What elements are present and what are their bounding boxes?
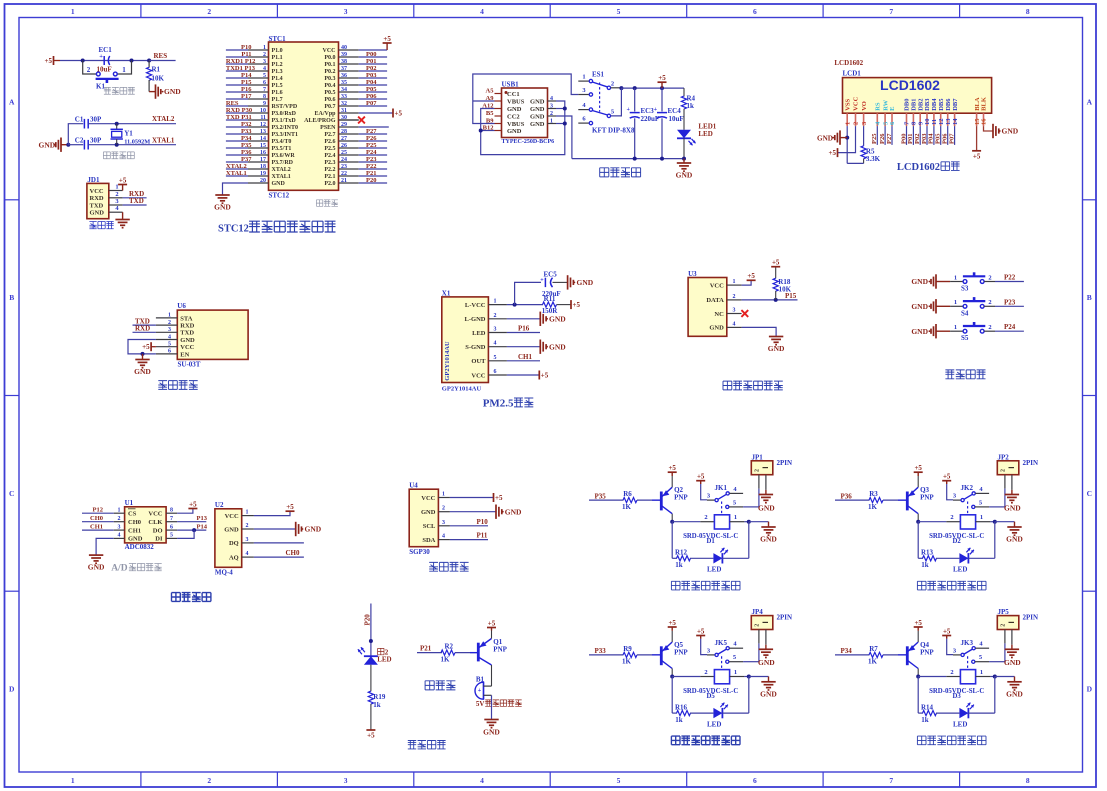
svg-text:PNP: PNP: [920, 648, 934, 656]
svg-text:+5: +5: [697, 473, 705, 481]
svg-text:+5: +5: [367, 732, 375, 740]
svg-text:GND: GND: [911, 277, 928, 286]
no-connect X (U3 pin3): [741, 310, 748, 317]
svg-text:LED: LED: [953, 720, 967, 728]
title 语音模块: [158, 381, 167, 390]
wire P36 to R3: [835, 499, 869, 501]
svg-text:GND: GND: [911, 327, 928, 336]
usb USB1 left pins: [495, 93, 502, 95]
svg-text:P02: P02: [366, 65, 376, 72]
svg-text:11: 11: [260, 115, 266, 121]
switch JK3 dashed link: [967, 656, 969, 669]
svg-text:1: 1: [844, 122, 851, 125]
svg-text:GND: GND: [530, 121, 545, 128]
svg-text:P2.5: P2.5: [324, 146, 335, 152]
svg-text:22: 22: [341, 171, 347, 177]
svg-text:Y1: Y1: [124, 130, 133, 138]
svg-text:GND: GND: [530, 98, 545, 105]
svg-text:RXD1 P12: RXD1 P12: [226, 58, 255, 65]
svg-text:R12: R12: [675, 549, 688, 557]
svg-text:3: 3: [118, 524, 121, 530]
svg-text:P10: P10: [241, 44, 251, 51]
wire U3 pin2 DATA: [742, 299, 798, 301]
svg-text:+5: +5: [286, 503, 294, 511]
title 甲烷检测: [172, 593, 181, 602]
wire U1 pin6 P14: [177, 529, 206, 531]
wire U4 pin1 +5: [450, 497, 494, 499]
wire +5 to JK2 pin3: [947, 484, 953, 500]
svg-text:ADC0832: ADC0832: [125, 543, 155, 551]
svg-text:C1: C1: [75, 116, 84, 124]
svg-text:GND: GND: [1002, 127, 1019, 136]
wire +5 rail: [621, 87, 684, 89]
svg-text:10K: 10K: [779, 286, 792, 294]
node relay D1 out junction: [747, 520, 751, 524]
title 电源电路: [600, 168, 609, 177]
svg-text:P32: P32: [241, 121, 251, 128]
wire U1 pin5 loop: [177, 530, 194, 538]
svg-text:A: A: [1087, 97, 1093, 106]
switch JK2 pin5: [972, 505, 975, 508]
svg-text:P26: P26: [366, 135, 377, 142]
svg-text:P13: P13: [197, 515, 208, 522]
ground (JP2): [1005, 494, 1019, 496]
svg-text:1: 1: [980, 514, 983, 521]
node Q4 collector junction: [916, 675, 920, 679]
svg-text:R19: R19: [373, 693, 386, 701]
svg-text:+5: +5: [488, 619, 496, 627]
node xtal1 junction: [115, 143, 119, 147]
svg-text:P23: P23: [366, 156, 377, 163]
svg-text:MQ-4: MQ-4: [215, 569, 233, 577]
svg-text:RS: RS: [875, 102, 882, 111]
svg-text:VCC: VCC: [90, 188, 104, 195]
svg-text:TXD: TXD: [129, 197, 144, 205]
ground (JP5): [1005, 648, 1019, 650]
svg-text:S5: S5: [961, 334, 969, 342]
wire collector to relay D3: [918, 676, 946, 678]
svg-text:GND: GND: [505, 507, 522, 516]
svg-text:2PIN: 2PIN: [777, 459, 793, 467]
svg-text:P35: P35: [241, 142, 252, 149]
svg-text:XTAL2: XTAL2: [226, 163, 247, 170]
svg-text:4: 4: [442, 534, 445, 540]
power +5 (Q5): [671, 631, 673, 642]
svg-text:CH0: CH0: [128, 519, 141, 526]
node gnd rail EC4: [660, 157, 664, 161]
node es1 out junction: [619, 86, 623, 90]
wire to gnd (D3): [995, 676, 1015, 678]
svg-text:VCC: VCC: [853, 96, 860, 110]
svg-text:LED: LED: [707, 720, 721, 728]
svg-text:CH1: CH1: [128, 527, 141, 534]
svg-text:27: 27: [341, 136, 347, 142]
title 继电器控制输出: [917, 581, 926, 590]
svg-text:2: 2: [611, 80, 614, 87]
node relay D3 out junction: [993, 675, 997, 679]
svg-text:GND: GND: [549, 342, 566, 351]
power +5 (Q4): [917, 631, 919, 642]
svg-text:P2.3: P2.3: [324, 160, 335, 166]
svg-text:2: 2: [950, 669, 953, 676]
wire key S5 to P24: [984, 330, 995, 332]
power +5 (X1 pin6): [538, 371, 540, 380]
svg-text:TXD P31: TXD P31: [226, 114, 252, 121]
wire R5 to VSS gnd loop: [847, 162, 863, 164]
svg-text:10uF: 10uF: [669, 115, 684, 123]
svg-text:XTAL1: XTAL1: [226, 170, 247, 177]
ground (lcd right): [992, 124, 994, 138]
svg-text:2: 2: [704, 669, 707, 676]
svg-text:P37: P37: [241, 156, 252, 163]
node DO/DI junction: [192, 528, 196, 532]
svg-text:10K: 10K: [152, 75, 165, 83]
svg-text:AQ: AQ: [229, 554, 239, 561]
svg-text:P3.5/T1: P3.5/T1: [272, 146, 292, 152]
svg-text:P20: P20: [364, 614, 372, 626]
svg-text:P21: P21: [420, 645, 432, 653]
title 独立按键: [945, 370, 954, 379]
svg-text:P2.1: P2.1: [324, 174, 335, 180]
svg-text:30P: 30P: [90, 116, 102, 124]
connector JP4 pin wires: [758, 630, 760, 644]
pin 3 (JD1 TXD): [109, 204, 123, 206]
svg-text:16: 16: [981, 118, 988, 125]
key button S3: [950, 281, 963, 283]
wire gnd up to C1: [68, 124, 83, 145]
svg-text:LCD1602: LCD1602: [834, 59, 863, 67]
svg-text:P3.3/INT1: P3.3/INT1: [272, 132, 299, 138]
wire U4 pin4 P11: [450, 539, 488, 541]
led yellow2: [364, 655, 378, 657]
svg-text:GND: GND: [180, 337, 195, 344]
relay D3 pin1 wire: [976, 676, 991, 678]
svg-text:TYPEC-250D-BCP6: TYPEC-250D-BCP6: [502, 139, 555, 145]
power +5 (reset): [53, 56, 55, 65]
svg-text:4: 4: [118, 533, 121, 539]
svg-text:L-GND: L-GND: [465, 316, 486, 323]
svg-text:24: 24: [341, 157, 347, 163]
svg-text:GND: GND: [483, 727, 500, 736]
svg-text:4: 4: [246, 551, 249, 557]
switch JK1 pin4: [729, 492, 743, 494]
svg-text:P36: P36: [241, 149, 252, 156]
title 继电器控制输出: [917, 736, 926, 745]
wire TXD (U6 pin2): [133, 324, 156, 326]
svg-text:R2: R2: [445, 643, 454, 651]
svg-text:EN: EN: [180, 351, 189, 358]
svg-text:STC12: STC12: [269, 192, 290, 200]
svg-text:GND: GND: [817, 134, 833, 142]
svg-text:D1: D1: [707, 538, 716, 545]
node usb pin1 junction: [563, 122, 567, 126]
lcd LCD1602 body: [843, 78, 992, 114]
svg-text:CC1: CC1: [507, 91, 520, 98]
node rail EC3: [633, 86, 637, 90]
ground (STC1 pin20): [223, 183, 249, 195]
svg-text:+5: +5: [943, 628, 951, 636]
svg-text:PNP: PNP: [674, 648, 688, 656]
wire RES: [149, 60, 176, 62]
svg-text:1: 1: [954, 324, 957, 331]
svg-text:2: 2: [115, 191, 118, 198]
svg-text:+5: +5: [668, 619, 676, 627]
svg-text:CC2: CC2: [507, 113, 520, 120]
svg-text:5: 5: [494, 355, 497, 361]
lcd data wires with net labels: [876, 126, 878, 145]
svg-text:33: 33: [341, 94, 347, 100]
svg-text:37: 37: [341, 66, 347, 72]
pin 4 (JD1 GND): [109, 211, 123, 213]
svg-text:7: 7: [889, 7, 893, 16]
svg-text:P15: P15: [241, 79, 252, 86]
lcd VO wire and resistor R5: [863, 126, 865, 146]
svg-text:R16: R16: [675, 703, 688, 711]
svg-text:CH1: CH1: [90, 524, 103, 531]
svg-text:GND: GND: [224, 526, 239, 533]
svg-text:2: 2: [87, 66, 91, 74]
wire led to junction (D5): [722, 712, 748, 714]
svg-text:VSS: VSS: [844, 98, 851, 110]
connector JP2 pin wires: [1004, 475, 1006, 489]
svg-text:1: 1: [954, 274, 957, 281]
svg-text:CH0: CH0: [90, 515, 103, 522]
svg-text:1: 1: [246, 510, 249, 516]
svg-text:2: 2: [950, 514, 953, 521]
led (relay D1): [713, 553, 722, 563]
svg-text:16: 16: [260, 150, 266, 156]
svg-text:GND: GND: [164, 87, 181, 96]
svg-text:XTAL2: XTAL2: [272, 167, 291, 173]
svg-text:2: 2: [118, 516, 121, 522]
svg-text:2: 2: [988, 324, 991, 331]
svg-text:P33: P33: [241, 128, 252, 135]
node DATA junction: [774, 298, 778, 302]
capacitor EC4: [661, 88, 663, 111]
svg-text:P0.4: P0.4: [324, 83, 335, 89]
svg-text:VBUS: VBUS: [507, 98, 525, 105]
svg-text:GND: GND: [709, 325, 724, 332]
lcd BLK wire to gnd: [984, 126, 994, 131]
node gnd rail EC3: [633, 157, 637, 161]
svg-text:S4: S4: [961, 309, 969, 317]
svg-text:P16: P16: [241, 86, 252, 93]
svg-text:P1.6: P1.6: [272, 90, 283, 96]
svg-text:36: 36: [341, 73, 347, 79]
svg-text:+: +: [626, 107, 630, 113]
adc U1 left pins: [114, 512, 125, 514]
svg-text:P0.0: P0.0: [324, 55, 335, 61]
svg-text:220uF: 220uF: [641, 115, 660, 123]
wire XTAL2: [88, 123, 176, 125]
node P20 junction: [369, 639, 373, 643]
svg-text:RXD: RXD: [135, 325, 150, 333]
svg-text:3: 3: [263, 59, 266, 65]
svg-text:2PIN: 2PIN: [1023, 459, 1039, 467]
svg-text:P03: P03: [366, 72, 377, 79]
wire collector to relay D2: [918, 521, 946, 523]
svg-text:LED: LED: [472, 330, 486, 337]
svg-text:P1.5: P1.5: [272, 83, 283, 89]
es1 pin1: [578, 80, 589, 82]
wire K1 branch right: [117, 61, 131, 75]
svg-text:P34: P34: [841, 647, 853, 655]
svg-text:B: B: [1087, 293, 1092, 302]
svg-text:JK2: JK2: [961, 484, 974, 492]
es1 dashed link: [599, 83, 601, 112]
svg-text:3: 3: [344, 7, 348, 16]
svg-text:P2.2: P2.2: [324, 167, 335, 173]
svg-text:D: D: [9, 685, 15, 694]
wire X1 pin2 to gnd: [507, 318, 540, 320]
svg-text:JK5: JK5: [715, 639, 728, 647]
wire usb pin3: [556, 108, 565, 110]
capacitor C2: [68, 144, 83, 146]
svg-text:GND: GND: [530, 113, 545, 120]
svg-text:P23: P23: [1004, 298, 1016, 306]
svg-text:4: 4: [480, 776, 484, 785]
svg-text:GND: GND: [1006, 535, 1023, 544]
connector JP1 pin wires: [758, 475, 760, 489]
svg-text:GND: GND: [768, 344, 785, 353]
power +5 (R11): [570, 300, 572, 309]
svg-text:R13: R13: [921, 549, 934, 557]
power +5 (U3): [747, 279, 756, 281]
title 继电器控制输出: [671, 581, 680, 590]
resistor R18 pullup: [775, 267, 777, 279]
svg-text:2PIN: 2PIN: [777, 614, 793, 622]
svg-text:XTAL1: XTAL1: [152, 137, 175, 145]
wire P20 vertical: [370, 604, 372, 657]
svg-text:P3.7/RD: P3.7/RD: [272, 160, 294, 166]
svg-text:P17: P17: [241, 93, 252, 100]
wire X1 pin5 CH1: [507, 360, 540, 362]
svg-text:TXD: TXD: [90, 202, 104, 209]
node gnd rail LED: [682, 157, 686, 161]
svg-text:GND: GND: [128, 536, 143, 543]
svg-text:2: 2: [988, 274, 991, 281]
pin 2 (JD1 RXD): [109, 197, 123, 199]
svg-text:1: 1: [980, 669, 983, 676]
node junction left: [81, 59, 85, 63]
svg-text:7: 7: [263, 87, 266, 93]
transistor Q3 PNP: [906, 492, 909, 511]
svg-text:P05: P05: [366, 86, 377, 93]
svg-text:2: 2: [853, 122, 860, 125]
wire Q5 collector: [671, 669, 673, 677]
node relay D5 out junction: [747, 675, 751, 679]
svg-text:P2.4: P2.4: [324, 153, 335, 159]
node RES junction: [147, 59, 151, 63]
node lcd vss gnd: [845, 136, 849, 140]
node Q3 collector junction: [916, 520, 920, 524]
svg-text:19: 19: [260, 171, 266, 177]
svg-text:P0.7: P0.7: [324, 104, 335, 110]
sensor U2 pins: [242, 515, 254, 517]
wire Q1 collector to buzzer: [491, 665, 493, 686]
power +5 (Q2): [671, 476, 673, 487]
title 温湿度传感器: [723, 381, 732, 390]
svg-text:R18: R18: [778, 278, 791, 286]
node usb pin3 junction: [563, 107, 567, 111]
svg-text:GP2Y1014AU: GP2Y1014AU: [444, 341, 451, 381]
svg-text:6: 6: [753, 7, 757, 16]
ground (U3): [769, 336, 783, 338]
wire U2 pin2 gnd: [254, 528, 296, 530]
svg-text:P14: P14: [197, 523, 208, 530]
wire X1 pin3 P16: [507, 332, 540, 334]
relay coil D3: [960, 670, 975, 684]
svg-text:P12: P12: [93, 507, 103, 514]
wire to gnd (D5): [749, 676, 769, 678]
svg-text:CH0: CH0: [286, 549, 301, 557]
svg-text:R14: R14: [921, 703, 934, 711]
node xtal2 junction: [115, 122, 119, 126]
relay coil D5: [714, 670, 729, 684]
svg-text:E: E: [889, 106, 896, 110]
ground (JP4): [759, 648, 773, 650]
svg-text:P05: P05: [935, 133, 942, 144]
svg-text:1K: 1K: [441, 656, 451, 664]
label 晶振电路: [103, 152, 110, 159]
wire X1 pin1: [507, 304, 543, 306]
svg-text:GND: GND: [577, 278, 594, 287]
svg-text:VCC: VCC: [710, 282, 724, 289]
ground (U4): [495, 505, 497, 519]
svg-text:P1.3: P1.3: [272, 69, 283, 75]
wire U2 pin3: [254, 542, 304, 544]
svg-text:6: 6: [494, 369, 497, 375]
svg-text:+5: +5: [914, 619, 922, 627]
svg-text:1K: 1K: [622, 658, 632, 666]
resistor R3: [869, 498, 883, 503]
svg-text:C: C: [1087, 489, 1092, 498]
power +5 (STC1 VCC): [386, 43, 388, 50]
wire Q4 collector: [917, 669, 919, 677]
svg-text:LED: LED: [953, 566, 967, 574]
label 按键复位: [104, 87, 111, 94]
ground (U6): [142, 354, 144, 360]
svg-text:8: 8: [1026, 7, 1030, 16]
svg-text:P0.5: P0.5: [324, 90, 335, 96]
svg-text:VCC: VCC: [471, 372, 485, 379]
svg-text:D: D: [1087, 685, 1093, 694]
svg-text:P2.6: P2.6: [324, 139, 335, 145]
node crystal gnd junction: [66, 143, 70, 147]
wire R2 to Q1 base: [455, 652, 477, 654]
module U6 pins: [156, 317, 177, 319]
wire U1 pin4 gnd: [96, 538, 114, 555]
svg-text:1: 1: [118, 507, 121, 513]
wire U6 gnd loop pin4/pin6: [128, 340, 156, 354]
svg-text:P25: P25: [871, 133, 878, 144]
usb USB1 right pins: [548, 100, 557, 102]
ground (lcd left): [840, 137, 847, 139]
svg-text:R7: R7: [869, 645, 878, 653]
svg-text:VO: VO: [861, 101, 868, 111]
capacitor EC5: [515, 282, 541, 304]
svg-text:+5: +5: [541, 372, 549, 380]
svg-text:6: 6: [170, 524, 173, 530]
ground (X1 pin4): [539, 340, 541, 354]
node Q2 collector junction: [670, 520, 674, 524]
svg-text:8: 8: [1026, 776, 1030, 785]
lcd VSS wire to gnd: [846, 126, 848, 163]
svg-text:7: 7: [170, 516, 173, 522]
power +5 (JD1): [122, 185, 124, 191]
svg-text:+5: +5: [668, 464, 676, 472]
wire LED to R19: [370, 665, 372, 692]
